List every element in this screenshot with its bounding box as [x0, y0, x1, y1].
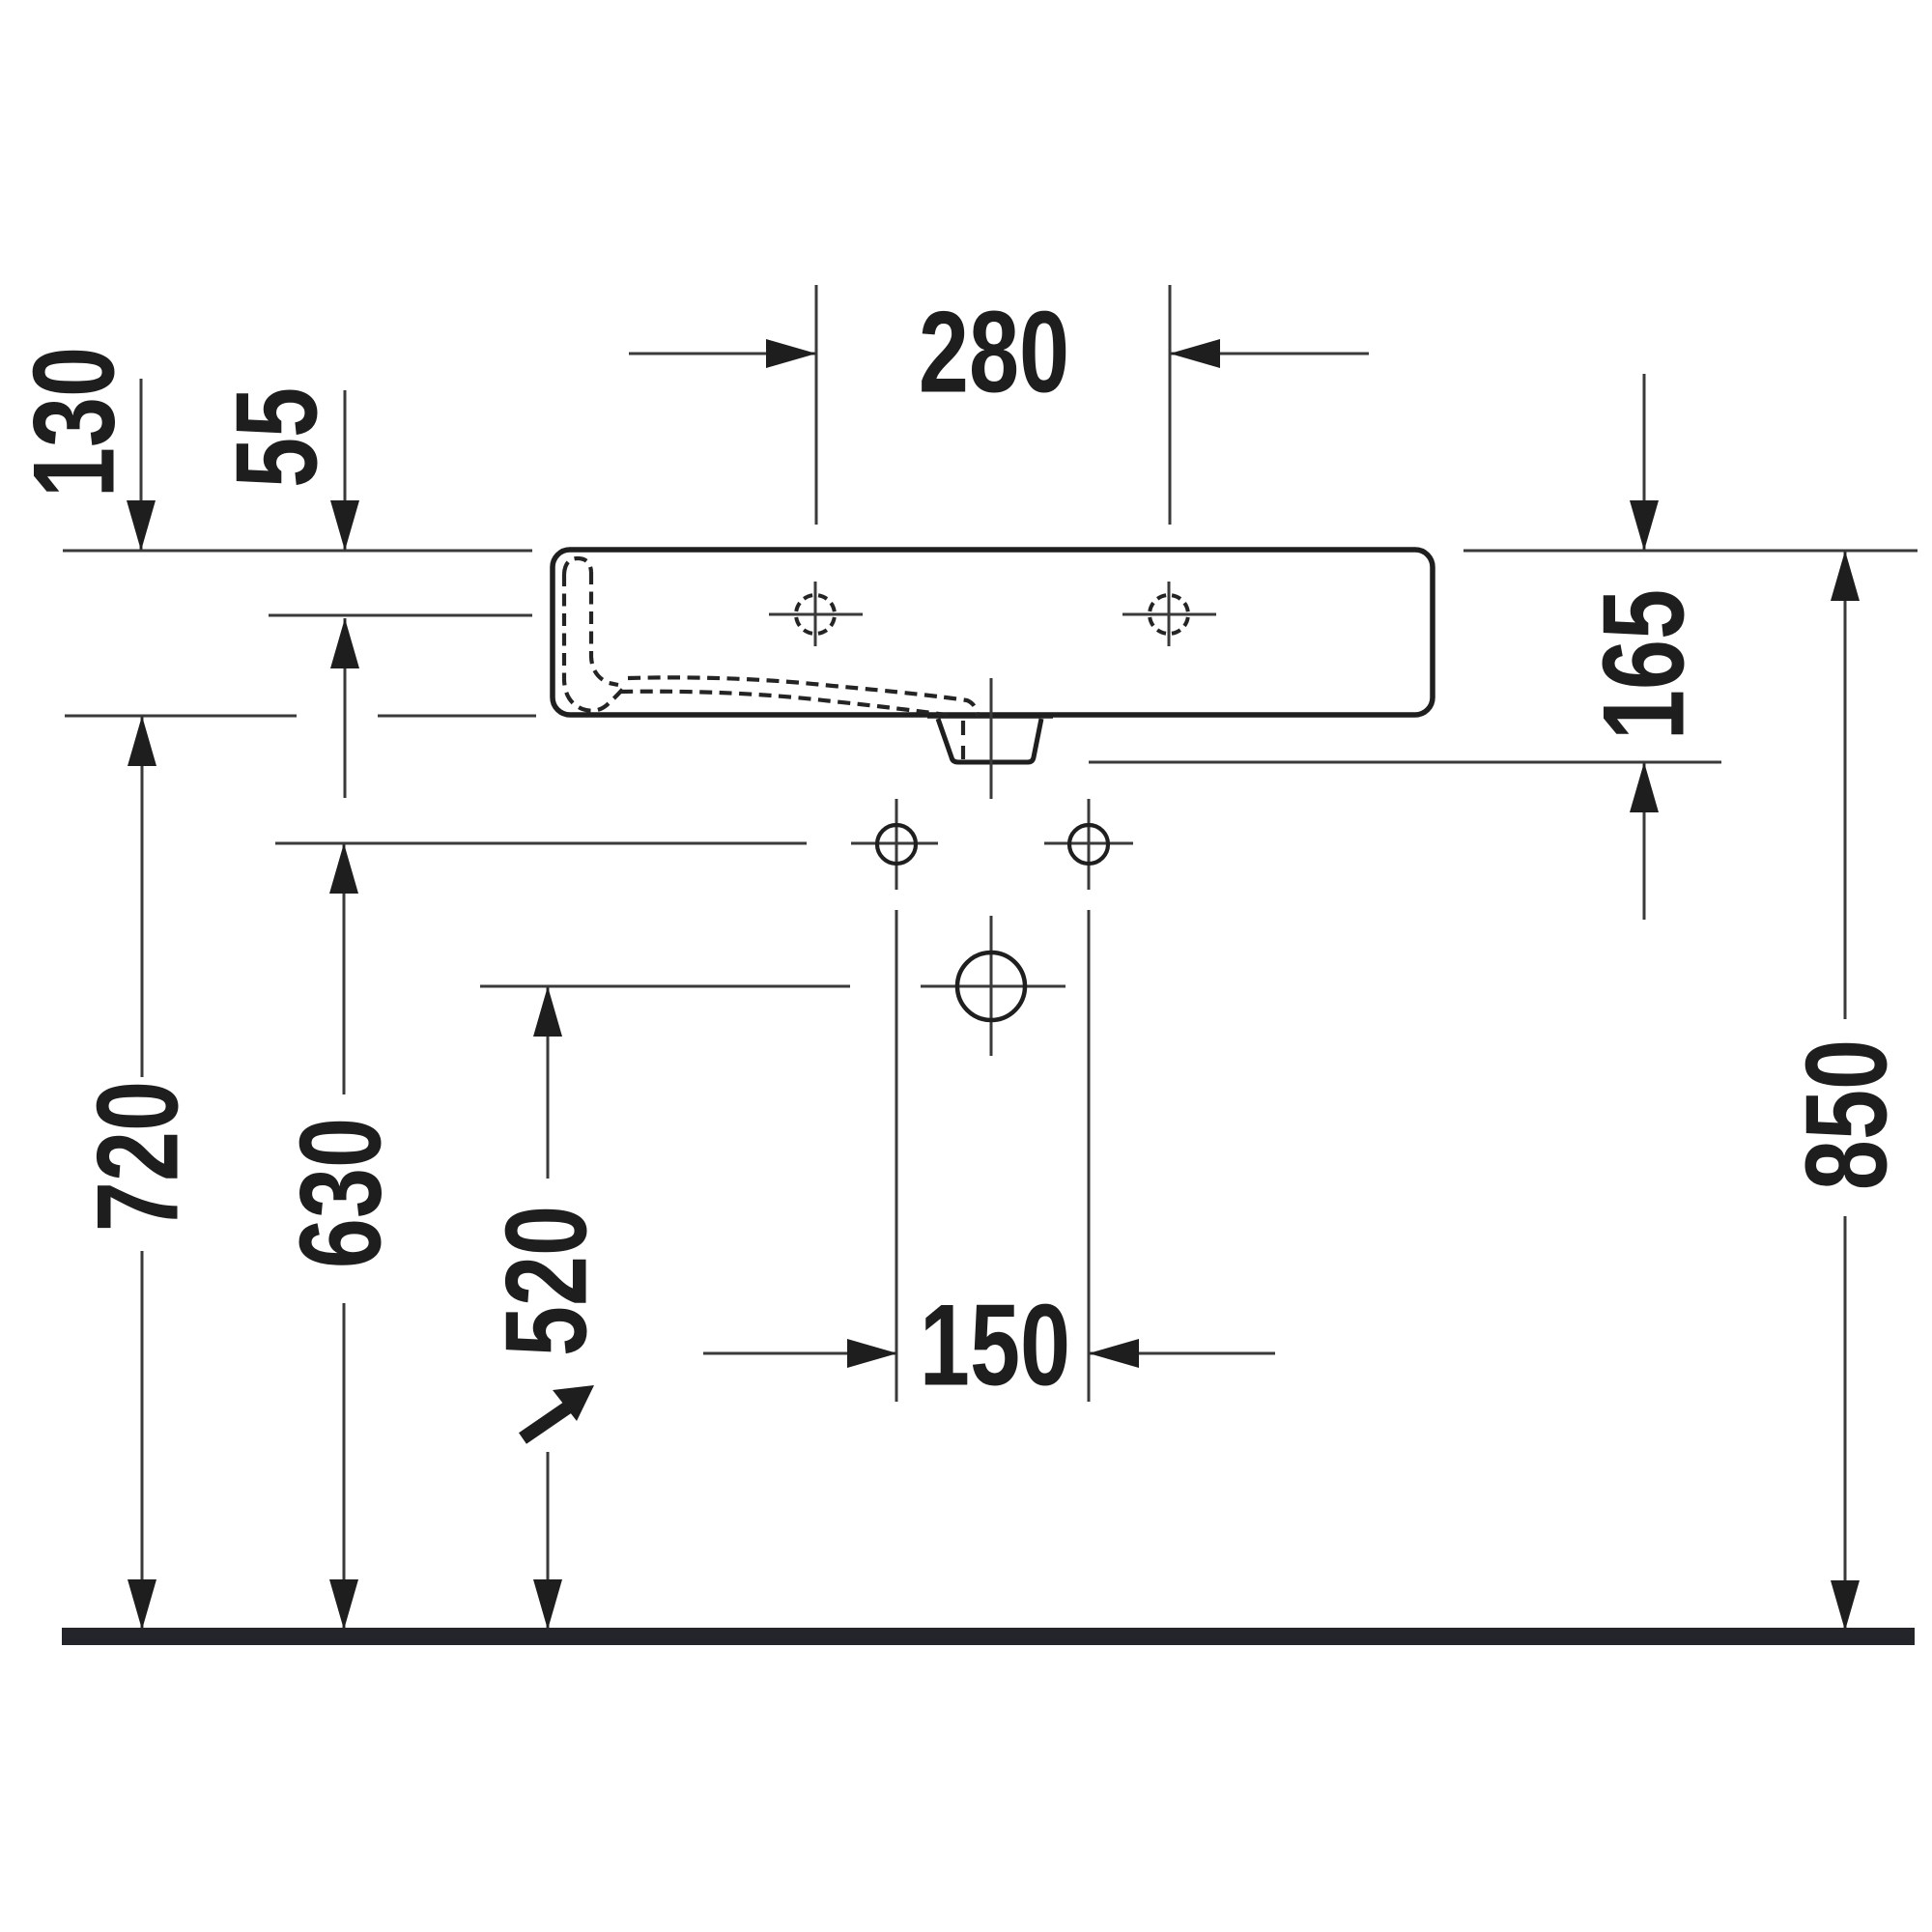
slanted direction arrow head	[553, 1385, 594, 1421]
dim 630 line upper part	[343, 843, 346, 1094]
left wall hole crosshair horizontal	[851, 842, 938, 845]
dim 720 line lower part	[141, 1251, 144, 1630]
svg-text:165: 165	[1578, 589, 1708, 740]
right wall hole crosshair horizontal	[1044, 842, 1133, 845]
drain spout trapezoid	[938, 719, 1041, 762]
dim 165 upper witness line	[1643, 374, 1646, 551]
wall-hole level line (630 reference)	[275, 842, 807, 845]
drain spout dashed centreline	[961, 721, 965, 759]
svg-text:630: 630	[275, 1118, 405, 1268]
right tap hole crosshair horizontal	[1122, 613, 1216, 616]
basin inner wall inner contour	[591, 572, 618, 685]
dim 280 extension line left	[815, 285, 818, 525]
arrowhead dim150 right	[847, 1339, 897, 1368]
arrowhead dim850 down	[1831, 1580, 1860, 1631]
svg-text:55: 55	[212, 387, 341, 488]
dim 520 line upper part	[547, 986, 550, 1179]
arrowhead dim630 up	[329, 843, 358, 894]
dim 280 extension line right	[1169, 285, 1172, 525]
arrowhead dim55 up	[330, 618, 359, 668]
dim 165 lower witness line	[1643, 762, 1646, 920]
basin body outline	[553, 550, 1433, 715]
wall line left segment	[63, 550, 532, 553]
dim 850 line lower part	[1844, 1216, 1847, 1630]
basin inner wall outer contour	[564, 574, 623, 711]
basin inner wall top arc	[564, 558, 591, 574]
left wall fixing hole circle	[877, 825, 916, 864]
dim 130 witness line	[140, 379, 143, 551]
svg-text:720: 720	[72, 1081, 202, 1232]
right tap hole dashed circle	[1150, 595, 1188, 634]
arrowhead dim630 down	[329, 1579, 358, 1630]
right wall fixing hole circle	[1069, 825, 1108, 864]
tap-hole level line (55 reference)	[269, 614, 532, 617]
arrowhead dim130 down	[127, 500, 156, 551]
dim 280 line left segment	[629, 353, 816, 355]
dim 720 line upper part	[141, 716, 144, 1077]
arrowhead dim520 up	[533, 986, 562, 1037]
dim 630 line lower part	[343, 1303, 346, 1630]
basin underside level line right part	[378, 715, 536, 718]
basin bottom edge over drain	[927, 713, 1053, 719]
drain outlet level line (165 reference)	[1089, 761, 1721, 764]
centre axis through drain	[990, 678, 993, 799]
dim 150 line right segment	[1088, 1352, 1275, 1355]
right tap hole crosshair vertical	[1168, 582, 1171, 646]
arrowhead dim720 up	[128, 716, 156, 766]
siphon level line (520 reference)	[480, 985, 850, 988]
arrowhead dim55 down	[330, 500, 359, 551]
wall line right segment	[1463, 550, 1918, 553]
dim 150 line left segment	[703, 1352, 897, 1355]
svg-text:280: 280	[919, 287, 1069, 416]
basin bottom upper contour to drain	[628, 677, 978, 717]
arrowhead dim280 left	[1170, 339, 1220, 368]
dim 55 lower witness line	[344, 618, 347, 798]
left tap hole crosshair vertical	[814, 582, 817, 646]
dim 150 extension line right	[1088, 910, 1091, 1402]
dim 150 extension line left	[895, 910, 898, 1402]
centre axis through siphon circle	[990, 916, 993, 1056]
arrowhead dim850 up	[1831, 551, 1860, 601]
right wall hole crosshair vertical	[1088, 799, 1091, 890]
floor line	[62, 1628, 1915, 1645]
arrowhead dim165 down	[1630, 500, 1659, 551]
left tap hole dashed circle	[796, 595, 835, 634]
dim 520 line lower part	[547, 1452, 550, 1630]
dim 55 upper witness line	[344, 390, 347, 551]
svg-text:130: 130	[9, 347, 138, 497]
arrowhead dim520 down	[533, 1579, 562, 1630]
arrowhead dim720 down	[128, 1579, 156, 1630]
svg-text:850: 850	[1781, 1039, 1911, 1190]
arrowhead dim165 up	[1630, 762, 1659, 812]
arrowhead dim150 left	[1089, 1339, 1139, 1368]
basin underside level line left part	[65, 715, 297, 718]
svg-text:150: 150	[920, 1280, 1070, 1409]
basin bottom lower contour to drain	[620, 692, 952, 716]
dim 280 line right segment	[1170, 353, 1369, 355]
siphon outlet circle	[957, 952, 1025, 1020]
left wall hole crosshair vertical	[895, 799, 898, 890]
dim 850 line upper part	[1844, 551, 1847, 1019]
siphon circle crosshair horizontal	[921, 985, 1065, 988]
arrowhead dim280 right	[766, 339, 816, 368]
slanted direction arrow shaft	[523, 1405, 572, 1438]
svg-text:520: 520	[481, 1206, 611, 1356]
left tap hole crosshair horizontal	[769, 613, 863, 616]
